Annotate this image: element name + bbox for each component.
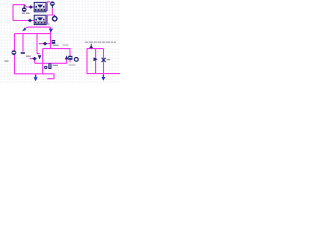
- probe circle2 (ring): [53, 15, 57, 21]
- wire IC1 right to probe circle: [45, 2, 50, 11]
- wire right rect right side: [103, 49, 105, 74]
- component on x70 wire: [68, 56, 72, 60]
- diamond D3 on y43.5 branch: [43, 42, 47, 46]
- tiny text near switch arrow: [47, 23, 50, 24]
- arrow current A2 (down on x50.5): [49, 29, 53, 33]
- arrow A3 down at x39.6: [37, 54, 41, 60]
- diamond D2 on bottom-left wire: [28, 19, 32, 23]
- wire y63.2 horizontal: [35, 62, 67, 64]
- wire left loop top: [13, 5, 34, 21]
- ground arrow A5: [35, 75, 37, 78]
- wire main vertical x50.5: [50, 27, 52, 48]
- wire right rect: [87, 49, 120, 74]
- wire left loop bottom: [13, 20, 34, 22]
- wire x23 vertical: [22, 34, 24, 52]
- power up arrow A7: [89, 44, 93, 48]
- arrow current A1 (wire start, pointing SW): [22, 28, 26, 32]
- wire switch feed y27: [25, 27, 51, 29]
- wire y58.5 + corner down: [30, 59, 35, 64]
- text label above diamond D2: [22, 13, 30, 14]
- wire y33.5 horizontal: [15, 33, 51, 35]
- wire x14.5 down + bottom rail + hook: [15, 34, 55, 79]
- capacitor bar at end of x23 wire: [21, 52, 25, 54]
- faint text right of cross: [63, 44, 69, 45]
- arrow A4 up at x66.6: [65, 55, 69, 59]
- long gray label line right: [85, 42, 116, 43]
- ground arrow A6: [102, 74, 104, 77]
- E-block component at cross: [52, 40, 59, 46]
- wire probe1 down to IC2 right: [45, 8, 55, 24]
- minus circle on x14.5 wire: [12, 50, 17, 55]
- probe circle1 (minus): [50, 1, 55, 8]
- transistor X on x103.5: [102, 58, 106, 62]
- IC U2: [34, 15, 46, 24]
- IC U1: [34, 2, 46, 11]
- text right of transistor: [107, 59, 111, 60]
- faint text under ring: [69, 64, 76, 65]
- wire y43.5 branch: [40, 43, 51, 45]
- tick at left end of y43.5 branch: [39, 43, 41, 44]
- wire x42.7 vertical: [42, 49, 44, 74]
- wire x70 stub below component: [69, 60, 71, 62]
- diamond D1 on top wire: [29, 5, 33, 9]
- wire x66.6 corner up: [66, 59, 68, 63]
- text left of minus circle: [4, 60, 8, 61]
- wire x37 vertical: [36, 34, 38, 54]
- text above y58.5 wire: [26, 56, 31, 57]
- probe P1 circle under top wire: [22, 5, 27, 12]
- diode on x95.6: [94, 57, 98, 61]
- background grid: [0, 0, 120, 83]
- circle-dot + E-block under y63.2 wire: [44, 63, 58, 69]
- wire y48.5 horizontal: [43, 49, 70, 56]
- diamond D4 on y58.5 wire: [32, 57, 36, 61]
- wire right rect inner vertical: [95, 49, 97, 74]
- ring component right of x70: [74, 58, 78, 62]
